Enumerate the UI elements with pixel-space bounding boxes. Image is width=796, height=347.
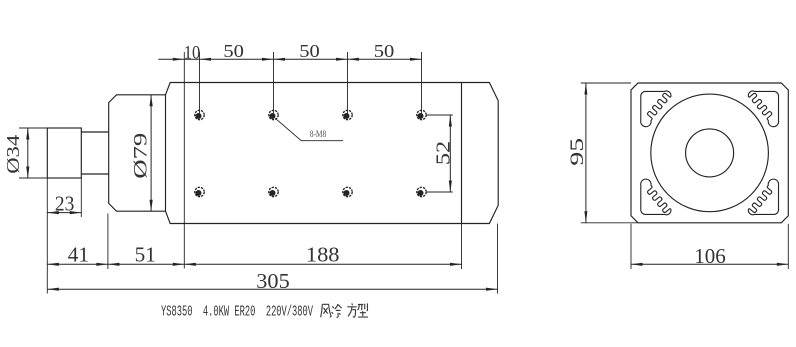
shaft cylinder 34mm [47, 128, 81, 178]
extension lines 106 [630, 224, 632, 269]
front flange (79mm) [109, 95, 166, 211]
svg-text:95: 95 [567, 138, 588, 166]
extension line shaft end [46, 178, 48, 294]
dim line dia34 [27, 128, 29, 178]
extension line body edge [183, 52, 185, 269]
dim line dia79 [150, 95, 152, 211]
svg-text:106: 106 [694, 244, 726, 268]
svg-text:23: 23 [55, 192, 75, 216]
label CJK leng (cold) [332, 304, 342, 317]
dim line 52 [449, 115, 451, 192]
tapped hole M8 bottom row #2 [269, 187, 278, 196]
svg-text:Ø34: Ø34 [3, 135, 23, 174]
stator circle [651, 94, 769, 212]
motor body outline [166, 83, 499, 224]
extension line to hole [421, 52, 423, 115]
extension line 188 right [461, 224, 463, 270]
extension line to hole [199, 52, 201, 115]
tapped hole M8 bottom row #1 [195, 187, 204, 196]
cooling slot bottom-right [748, 179, 778, 215]
extension lines 52 [427, 114, 453, 116]
end cap boundary line [461, 83, 463, 224]
label CJK fang (square) [347, 303, 356, 317]
dim arrows top [173, 58, 185, 61]
tapped hole M8 top row #2 [269, 110, 278, 119]
dim line 23 [47, 212, 81, 214]
cooling slot top-left [641, 91, 671, 127]
svg-text:305: 305 [256, 269, 289, 293]
top dimension chain line [158, 58, 421, 60]
svg-text:YS8350 4.0KW ER20 220V/380V: YS8350 4.0KW ER20 220V/380V [161, 304, 313, 321]
extension lines 95 [581, 82, 631, 84]
dim chain line 41 51 188 [47, 263, 461, 265]
svg-text:50: 50 [299, 41, 320, 61]
tapped hole M8 bottom row #3 [343, 187, 352, 196]
leader line 8-M8 [275, 118, 343, 140]
svg-text:10: 10 [184, 43, 201, 64]
svg-text:52: 52 [433, 141, 455, 165]
tapped hole M8 top row #3 [343, 110, 352, 119]
svg-text:41: 41 [68, 243, 89, 267]
dim line 106 [631, 263, 788, 265]
rotor circle [686, 129, 734, 177]
end view square body [631, 83, 788, 223]
svg-text:50: 50 [374, 41, 395, 61]
svg-text:51: 51 [135, 243, 156, 267]
tapped hole M8 bottom row #4 [417, 187, 426, 196]
extension line to hole [347, 52, 349, 115]
label CJK feng (wind) [321, 304, 331, 317]
label CJK xing (type) [358, 303, 368, 317]
extension lines dia34 [19, 127, 47, 129]
svg-text:188: 188 [306, 243, 340, 267]
svg-text:Ø79: Ø79 [131, 133, 152, 179]
tapped hole M8 top row #1 [195, 110, 204, 119]
svg-text:50: 50 [223, 41, 244, 61]
cooling slot bottom-left [641, 179, 671, 215]
cooling slot top-right [748, 91, 778, 127]
extension line 41/51 [107, 214, 109, 270]
dim line 95 [585, 83, 587, 223]
tapped hole M8 top row #4 [417, 110, 426, 119]
dim line 305 [47, 288, 497, 290]
shaft neck [81, 132, 108, 174]
extension line to hole [273, 52, 275, 115]
extension line right end [497, 224, 499, 294]
svg-text:8-M8: 8-M8 [310, 130, 327, 140]
extension line 23 [80, 178, 82, 217]
